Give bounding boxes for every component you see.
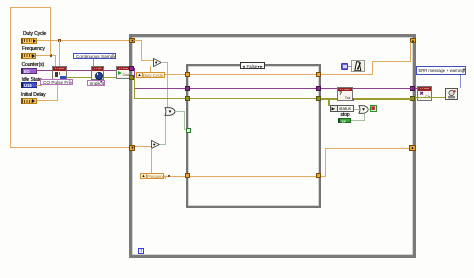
wire: or to conditional terminal xyxy=(368,109,370,110)
wire: olive case to right tunnel xyxy=(321,98,411,100)
wire: stop right xyxy=(351,120,365,121)
wire: duty compare down to or xyxy=(167,62,168,108)
not equal? frequency xyxy=(151,140,160,149)
wire: purple inside to case xyxy=(134,88,186,89)
control terminal: Initial Delay (DBL) xyxy=(21,98,37,104)
control terminal: Counter(s) (DAQmx physical channel) xyxy=(21,68,37,74)
case selector terminal xyxy=(186,128,191,133)
wire: duty local var to case tunnel xyxy=(165,74,187,75)
label: Initial Delay xyxy=(21,93,46,98)
wire: duty inside from SR xyxy=(134,40,141,41)
label: Frequency xyxy=(22,47,45,52)
wire: status to or xyxy=(354,109,359,110)
wire: case duty pass-through xyxy=(190,74,317,75)
wire: or output right xyxy=(175,111,184,112)
wire: duty not-equal output right xyxy=(161,62,167,63)
wire: duty exit up to SR xyxy=(410,42,411,61)
wire: freq local var to case tunnel xyxy=(164,176,186,177)
tunnel: case olive left xyxy=(185,96,190,101)
wire: freq not-equal output right xyxy=(160,144,166,145)
shift register: duty left xyxy=(129,38,135,44)
wire: frequency route top horizontal xyxy=(10,7,51,8)
wire junction: duty cycle branch xyxy=(58,39,61,42)
tunnel: case duty left xyxy=(185,72,190,77)
wire: freq local var up to not-equal xyxy=(151,148,152,173)
wire: err mode down to handler xyxy=(460,75,461,88)
sub VI: DAQmx Timing xyxy=(91,66,104,80)
tunnel: case purple right xyxy=(316,86,321,91)
wire: constant to metronome xyxy=(348,66,351,67)
constant dropdown: ERR message + warnings xyxy=(416,66,466,75)
while loop border xyxy=(129,34,416,259)
or gate left xyxy=(164,107,176,116)
function: wait until next ms multiple (metronome) xyxy=(351,60,365,73)
case selector label xyxy=(240,62,265,69)
tunnel: case freq right xyxy=(316,173,321,178)
constant dropdown: Continuous Samples xyxy=(73,53,116,59)
wire junction: olive at task done xyxy=(351,98,354,101)
or gate right xyxy=(358,105,369,114)
wire: frequency terminal right xyxy=(35,55,56,56)
wire: freq compare up to or xyxy=(165,113,166,144)
wire: freq exit up xyxy=(325,148,326,177)
wire: duty exit up xyxy=(372,61,373,75)
tunnel: olive error into loop xyxy=(129,75,134,80)
wire: purple to is-task-done xyxy=(321,88,337,89)
tunnel: case purple left xyxy=(185,86,190,91)
wire: error olive create to timing xyxy=(66,77,92,79)
control terminal: Duty Cycle (DBL) xyxy=(21,38,37,44)
sub VI: Simple Error Handler xyxy=(445,88,458,100)
control terminal: Idle State (ring) xyxy=(21,82,37,88)
numeric constant: wait ms xyxy=(341,63,349,70)
sub VI: DAQmx Is Task Done xyxy=(337,87,353,102)
wire: duty exit right xyxy=(321,74,372,75)
wire: purple inside drop xyxy=(134,68,135,88)
wire: freq exit right to SR xyxy=(325,148,409,149)
not equal? duty xyxy=(153,58,162,67)
wire: duty cycle terminal to while loop xyxy=(36,40,130,41)
wire: initial delay up into create VI xyxy=(57,85,58,101)
tunnel: purple task out of loop xyxy=(410,86,415,91)
conditional terminal: stop if true xyxy=(370,105,377,112)
wire: duty cycle branch down to create VI xyxy=(59,40,60,66)
shift register: duty right xyxy=(410,38,416,44)
wire: freq exit right xyxy=(321,176,326,177)
tunnel: case olive right xyxy=(316,96,321,101)
wire: case freq pass-through xyxy=(190,176,317,177)
wire: case olive pass-through xyxy=(190,98,317,100)
tunnel: case freq left xyxy=(185,173,190,178)
tunnel: case duty right xyxy=(316,72,321,77)
wire: purple is-task-done to loop tunnel xyxy=(351,88,411,89)
wire: olive inside to case xyxy=(134,98,187,100)
wire: olive branch down to unbundle xyxy=(328,99,330,106)
wire: task purple timing to start xyxy=(103,70,117,71)
sub VI: DAQmx Clear Task xyxy=(417,86,432,101)
wire junction: freq local wire xyxy=(168,175,171,178)
shift register: freq left xyxy=(129,145,136,151)
wire: duty inside right to not-equal xyxy=(141,60,153,61)
wire: stop up to or xyxy=(364,113,365,122)
wire: frequency branch up xyxy=(50,7,51,55)
wire: error olive timing to start xyxy=(103,77,117,79)
local variable: Frequency xyxy=(140,173,164,179)
wire junction: frequency branch xyxy=(50,54,53,57)
wire: case purple pass-through xyxy=(190,88,317,89)
iteration terminal i xyxy=(138,248,144,254)
wire: initial delay right xyxy=(37,100,58,101)
wire: olive inside drop xyxy=(134,78,136,98)
wire: duty exit top horizontal xyxy=(372,61,411,62)
wire: to selector tunnel xyxy=(184,129,188,130)
case structure border xyxy=(186,64,321,208)
shift register: freq right xyxy=(409,145,416,151)
unbundle by name: status xyxy=(330,105,354,112)
sub VI: DAQmx Create Virtual Channel xyxy=(52,66,67,81)
label: Idle State xyxy=(22,78,42,83)
control terminal: stop (boolean) xyxy=(338,118,351,124)
control terminal: Frequency (DBL) xyxy=(21,53,36,59)
wire: frequency route far-left vertical xyxy=(10,7,11,148)
wire: freq inside from SR xyxy=(135,146,151,147)
tunnel: olive error out of loop xyxy=(410,96,415,101)
sub VI: DAQmx Start Task xyxy=(116,66,131,79)
label: Duty Cycle xyxy=(23,32,46,37)
label: stop xyxy=(341,113,350,118)
constant dropdown: Implicit xyxy=(87,80,105,86)
constant dropdown: CO Pulse Freq xyxy=(40,79,73,85)
wire: sample mode down to timing VI xyxy=(93,59,94,66)
wire: or output down to selector xyxy=(184,111,185,130)
local variable: Duty Cycle xyxy=(136,72,165,78)
label: Counter(s) xyxy=(22,63,45,68)
wire: task purple create to timing xyxy=(66,70,92,71)
wire: frequency branch down into create VI xyxy=(55,55,56,66)
wire: purple out to clear task xyxy=(415,88,418,89)
wire: frequency route bottom horizontal to loop shift register xyxy=(10,147,129,148)
tunnel: purple task into loop xyxy=(129,66,134,71)
wire: counter purple to create VI xyxy=(36,70,53,71)
wire: idle state to dropdown area xyxy=(36,85,42,86)
wire: duty local var up to not-equal xyxy=(150,66,151,72)
wire: duty inside down xyxy=(141,40,142,60)
wire: olive out to error handler xyxy=(415,97,445,99)
